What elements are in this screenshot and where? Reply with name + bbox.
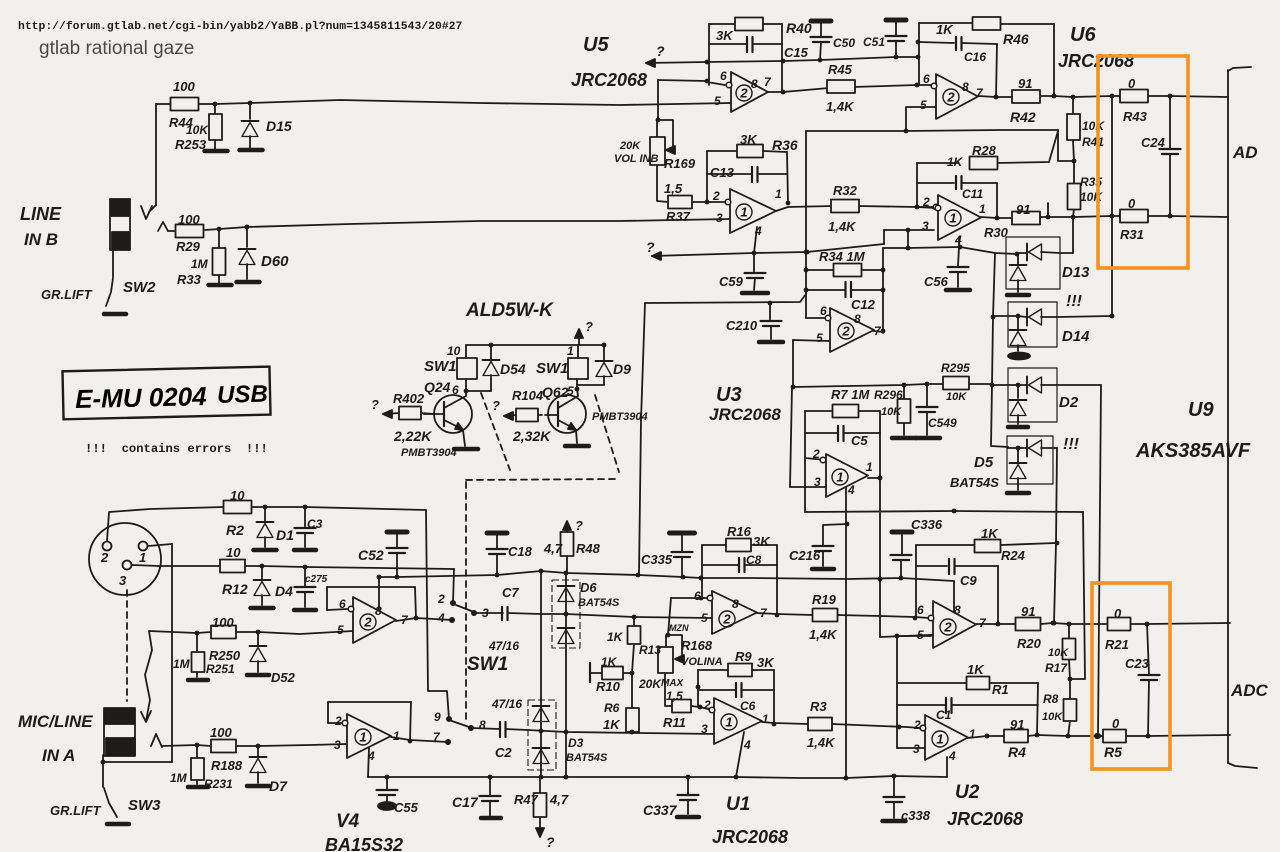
svg-text:10: 10 xyxy=(447,344,461,358)
svg-text:C18: C18 xyxy=(508,544,533,559)
svg-text:R34 1M: R34 1M xyxy=(819,249,866,264)
svg-text:MAX: MAX xyxy=(661,678,685,689)
svg-text:LINE: LINE xyxy=(20,204,62,224)
svg-text:c275: c275 xyxy=(305,574,328,585)
svg-text:4,7: 4,7 xyxy=(543,541,563,556)
svg-text:U9: U9 xyxy=(1188,399,1214,421)
svg-text:47/16: 47/16 xyxy=(491,697,522,711)
svg-text:1: 1 xyxy=(775,187,782,201)
svg-text:R7 1M: R7 1M xyxy=(831,387,870,402)
svg-text:!!! contains errors !!!: !!! contains errors !!! xyxy=(85,442,268,456)
svg-text:Q24: Q24 xyxy=(424,379,451,395)
svg-text:1,4K: 1,4K xyxy=(809,627,838,642)
svg-text:2: 2 xyxy=(922,195,930,209)
svg-text:GR.LIFT: GR.LIFT xyxy=(41,287,93,302)
svg-text:2: 2 xyxy=(913,718,921,732)
svg-text:D54: D54 xyxy=(500,361,526,377)
svg-text:C9: C9 xyxy=(960,573,977,588)
svg-text:R47: R47 xyxy=(514,792,539,807)
svg-text:R1: R1 xyxy=(992,682,1009,697)
svg-text:D5: D5 xyxy=(974,454,994,471)
svg-text:V4: V4 xyxy=(336,811,360,832)
svg-text:1: 1 xyxy=(936,731,943,746)
svg-text:SW2: SW2 xyxy=(123,279,156,296)
svg-text:R36: R36 xyxy=(772,137,798,153)
svg-text:ADC: ADC xyxy=(1230,681,1269,700)
svg-text:R17: R17 xyxy=(1045,661,1068,675)
svg-text:2: 2 xyxy=(334,714,342,728)
svg-text:1,4K: 1,4K xyxy=(826,99,855,114)
svg-text:8: 8 xyxy=(479,718,486,732)
svg-text:C7: C7 xyxy=(502,585,519,600)
svg-text:2: 2 xyxy=(712,189,720,203)
svg-text:6: 6 xyxy=(339,597,346,611)
svg-text:6: 6 xyxy=(923,72,930,86)
svg-text:2: 2 xyxy=(812,447,820,461)
svg-text:R40: R40 xyxy=(786,20,812,36)
svg-text:D2: D2 xyxy=(1059,394,1079,411)
svg-text:R32: R32 xyxy=(833,183,858,198)
svg-text:4: 4 xyxy=(948,749,956,763)
svg-text:3: 3 xyxy=(814,475,821,489)
svg-text:R45: R45 xyxy=(828,62,853,77)
svg-text:1: 1 xyxy=(979,202,986,216)
svg-text:R37: R37 xyxy=(666,209,691,224)
svg-text:10K: 10K xyxy=(1082,119,1105,133)
svg-text:2: 2 xyxy=(100,550,109,565)
svg-text:D4: D4 xyxy=(275,583,293,599)
svg-text:AD: AD xyxy=(1232,143,1258,162)
svg-text:D9: D9 xyxy=(613,361,631,377)
svg-text:100: 100 xyxy=(212,615,234,630)
svg-text:R16: R16 xyxy=(727,524,752,539)
svg-text:1: 1 xyxy=(359,729,366,744)
svg-text:8: 8 xyxy=(954,603,961,617)
svg-text:3K: 3K xyxy=(740,132,758,147)
svg-text:BAT54S: BAT54S xyxy=(566,752,608,764)
svg-text:C17: C17 xyxy=(452,794,479,810)
svg-text:U5: U5 xyxy=(583,34,609,56)
svg-text:R4: R4 xyxy=(1008,744,1026,760)
svg-text:3K: 3K xyxy=(716,28,734,43)
svg-text:91: 91 xyxy=(1021,604,1035,619)
svg-text:4: 4 xyxy=(367,749,375,763)
svg-text:R31: R31 xyxy=(1120,227,1144,242)
svg-text:20K: 20K xyxy=(619,140,641,152)
svg-text:R402: R402 xyxy=(393,391,425,406)
svg-text:SW3: SW3 xyxy=(128,797,161,814)
svg-text:IN B: IN B xyxy=(24,230,58,249)
svg-text:10K: 10K xyxy=(1048,647,1069,659)
svg-text:3: 3 xyxy=(119,573,127,588)
svg-text:1K: 1K xyxy=(607,630,624,644)
svg-text:3: 3 xyxy=(913,742,920,756)
svg-text:2: 2 xyxy=(437,592,445,606)
svg-text:6: 6 xyxy=(452,383,459,397)
svg-text:5: 5 xyxy=(714,94,721,108)
svg-text:http://forum.gtlab.net/cgi-bin: http://forum.gtlab.net/cgi-bin/yabb2/YaB… xyxy=(18,21,462,33)
svg-text:SW1: SW1 xyxy=(536,360,569,377)
svg-text:R8: R8 xyxy=(1043,692,1059,706)
svg-text:C337: C337 xyxy=(643,802,678,818)
svg-text:4: 4 xyxy=(954,233,962,247)
svg-text:JRC2068: JRC2068 xyxy=(571,70,647,90)
svg-text:C50: C50 xyxy=(833,36,855,50)
svg-text:C24: C24 xyxy=(1141,135,1166,150)
svg-text:C23: C23 xyxy=(1125,656,1150,671)
svg-text:4: 4 xyxy=(743,738,751,752)
svg-text:?: ? xyxy=(656,43,665,59)
svg-text:1: 1 xyxy=(866,460,873,474)
svg-text:U1: U1 xyxy=(726,794,750,815)
svg-text:3K: 3K xyxy=(753,534,771,549)
svg-text:1: 1 xyxy=(949,210,956,225)
svg-text:SW1: SW1 xyxy=(467,654,508,675)
svg-text:MIC/LINE: MIC/LINE xyxy=(18,712,93,731)
svg-text:1,4K: 1,4K xyxy=(828,219,857,234)
svg-text:R104: R104 xyxy=(512,388,544,403)
svg-text:8: 8 xyxy=(732,597,739,611)
svg-text:1,5: 1,5 xyxy=(666,689,683,703)
svg-text:100: 100 xyxy=(178,212,200,227)
svg-text:1K: 1K xyxy=(947,155,964,169)
svg-text:8: 8 xyxy=(751,77,758,91)
svg-text:R24: R24 xyxy=(1001,548,1026,563)
svg-text:1K: 1K xyxy=(936,22,954,37)
svg-text:3: 3 xyxy=(482,606,489,620)
svg-text:5: 5 xyxy=(567,384,574,398)
svg-text:R33: R33 xyxy=(177,272,202,287)
svg-text:20K: 20K xyxy=(638,677,662,691)
svg-text:C59: C59 xyxy=(719,274,744,289)
svg-text:4: 4 xyxy=(847,483,855,497)
svg-text:D13: D13 xyxy=(1062,264,1090,281)
svg-text:C12: C12 xyxy=(851,297,876,312)
svg-text:10: 10 xyxy=(230,488,245,503)
svg-text:R28: R28 xyxy=(972,143,997,158)
svg-text:1: 1 xyxy=(393,729,400,743)
svg-text:D3: D3 xyxy=(568,736,584,750)
svg-text:!!!: !!! xyxy=(1066,293,1083,310)
svg-text:C51: C51 xyxy=(863,35,885,49)
svg-text:C3: C3 xyxy=(307,517,323,531)
svg-text:R3: R3 xyxy=(810,699,827,714)
svg-text:0: 0 xyxy=(1114,606,1122,621)
svg-text:1K: 1K xyxy=(981,526,999,541)
svg-text:ALD5W-K: ALD5W-K xyxy=(465,300,554,321)
svg-text:C5: C5 xyxy=(851,433,868,448)
svg-text:R46: R46 xyxy=(1003,31,1029,47)
svg-text:R19: R19 xyxy=(812,592,837,607)
svg-text:2: 2 xyxy=(703,698,711,712)
svg-text:4: 4 xyxy=(754,224,762,238)
svg-text:R250: R250 xyxy=(209,648,241,663)
svg-text:1K: 1K xyxy=(601,655,618,669)
svg-text:R231: R231 xyxy=(204,777,233,791)
svg-text:R168: R168 xyxy=(681,638,713,653)
svg-text:1: 1 xyxy=(969,727,976,741)
svg-text:gtlab rational gaze: gtlab rational gaze xyxy=(39,38,194,59)
svg-text:R6: R6 xyxy=(604,701,620,715)
svg-text:10K: 10K xyxy=(1042,711,1063,723)
svg-text:BAT54S: BAT54S xyxy=(950,475,999,490)
svg-text:R253: R253 xyxy=(175,137,207,152)
svg-text:6: 6 xyxy=(720,69,727,83)
svg-text:9: 9 xyxy=(434,710,441,724)
svg-text:47/16: 47/16 xyxy=(488,639,519,653)
svg-text:JRC2068: JRC2068 xyxy=(709,405,781,424)
svg-text:BA15S32: BA15S32 xyxy=(325,835,403,852)
svg-text:C335: C335 xyxy=(641,552,673,567)
svg-text:R251: R251 xyxy=(206,662,235,676)
svg-text:6: 6 xyxy=(694,589,701,603)
svg-text:1: 1 xyxy=(740,204,747,219)
svg-text:10: 10 xyxy=(226,545,241,560)
svg-text:VOL INB: VOL INB xyxy=(614,153,658,165)
svg-text:10K: 10K xyxy=(1080,190,1103,204)
svg-text:C56: C56 xyxy=(924,274,949,289)
svg-text:3: 3 xyxy=(701,722,708,736)
svg-text:1: 1 xyxy=(567,344,574,358)
svg-text:Q62: Q62 xyxy=(542,384,569,400)
svg-text:100: 100 xyxy=(173,79,195,94)
svg-text:3: 3 xyxy=(716,211,723,225)
svg-text:?: ? xyxy=(546,834,555,850)
svg-text:2: 2 xyxy=(946,89,955,104)
svg-text:1: 1 xyxy=(762,712,769,726)
svg-text:1K: 1K xyxy=(967,662,985,677)
svg-text:R29: R29 xyxy=(176,239,201,254)
svg-text:C16: C16 xyxy=(964,50,986,64)
svg-text:1,4K: 1,4K xyxy=(807,735,836,750)
svg-text:3K: 3K xyxy=(757,655,775,670)
svg-text:C216: C216 xyxy=(789,548,821,563)
svg-text:!!!: !!! xyxy=(1063,436,1080,453)
svg-text:1,5: 1,5 xyxy=(664,181,683,196)
svg-text:SW1: SW1 xyxy=(424,358,457,375)
svg-text:1M: 1M xyxy=(173,657,191,671)
svg-text:MZN: MZN xyxy=(669,623,689,633)
svg-text:C8: C8 xyxy=(746,553,762,567)
svg-text:PMBT3904: PMBT3904 xyxy=(401,447,457,459)
svg-text:10K: 10K xyxy=(186,123,209,137)
svg-text:10K: 10K xyxy=(881,406,902,418)
svg-text:3: 3 xyxy=(922,219,929,233)
svg-text:91: 91 xyxy=(1010,717,1024,732)
svg-text:2,22K: 2,22K xyxy=(393,428,432,444)
svg-text:91: 91 xyxy=(1016,202,1030,217)
svg-text:D15: D15 xyxy=(266,118,292,134)
svg-text:5: 5 xyxy=(920,98,927,112)
svg-text:E-MU 0204: E-MU 0204 xyxy=(75,381,208,414)
svg-text:D60: D60 xyxy=(261,253,289,270)
svg-text:1: 1 xyxy=(725,714,732,729)
svg-text:R41: R41 xyxy=(1082,135,1104,149)
svg-text:2: 2 xyxy=(722,611,731,626)
svg-text:4,7: 4,7 xyxy=(549,792,569,807)
svg-text:D14: D14 xyxy=(1062,328,1090,345)
svg-text:GR.LIFT: GR.LIFT xyxy=(50,803,102,818)
svg-text:c338: c338 xyxy=(901,808,931,823)
svg-text:R12: R12 xyxy=(222,581,248,597)
svg-text:JRC2068: JRC2068 xyxy=(712,827,788,847)
svg-text:C2: C2 xyxy=(495,745,512,760)
svg-text:C13: C13 xyxy=(710,165,735,180)
svg-text:2: 2 xyxy=(363,614,372,629)
svg-text:C11: C11 xyxy=(962,187,983,201)
svg-text:4: 4 xyxy=(437,611,445,625)
svg-text:C55: C55 xyxy=(394,800,419,815)
svg-text:3: 3 xyxy=(334,738,341,752)
svg-text:?: ? xyxy=(371,397,379,412)
svg-text:U2: U2 xyxy=(955,782,980,803)
svg-text:R9: R9 xyxy=(735,649,752,664)
svg-text:D52: D52 xyxy=(271,670,296,685)
svg-text:5: 5 xyxy=(337,623,344,637)
svg-text:10K: 10K xyxy=(946,391,967,403)
svg-text:C1: C1 xyxy=(936,708,952,722)
svg-text:BAT54S: BAT54S xyxy=(578,597,620,609)
svg-text:?: ? xyxy=(575,518,583,533)
svg-text:1M: 1M xyxy=(191,257,209,271)
svg-text:R30: R30 xyxy=(984,225,1009,240)
svg-text:6: 6 xyxy=(917,603,924,617)
svg-text:JRC2068: JRC2068 xyxy=(947,809,1023,829)
svg-text:1K: 1K xyxy=(603,717,621,732)
svg-text:R43: R43 xyxy=(1123,109,1148,124)
svg-text:C52: C52 xyxy=(358,547,384,563)
svg-text:R296: R296 xyxy=(874,388,903,402)
svg-text:2,32K: 2,32K xyxy=(512,428,551,444)
svg-text:91: 91 xyxy=(1018,76,1032,91)
svg-text:R48: R48 xyxy=(576,541,601,556)
svg-text:0: 0 xyxy=(1128,76,1136,91)
svg-text:JRC2068: JRC2068 xyxy=(1058,51,1134,71)
svg-text:R11: R11 xyxy=(663,715,686,730)
svg-text:USB: USB xyxy=(217,381,268,409)
svg-text:0: 0 xyxy=(1128,196,1136,211)
svg-text:8: 8 xyxy=(854,312,861,326)
svg-text:U3: U3 xyxy=(716,384,742,406)
svg-text:R42: R42 xyxy=(1010,109,1036,125)
svg-text:2: 2 xyxy=(943,619,952,634)
svg-text:U6: U6 xyxy=(1070,24,1096,46)
svg-text:5: 5 xyxy=(816,331,823,345)
svg-text:R5: R5 xyxy=(1104,744,1122,760)
svg-text:D6: D6 xyxy=(580,580,597,595)
svg-text:R13: R13 xyxy=(639,643,661,657)
svg-text:100: 100 xyxy=(210,725,232,740)
svg-text:R188: R188 xyxy=(211,758,243,773)
svg-text:PMBT3904: PMBT3904 xyxy=(592,411,648,423)
svg-text:IN A: IN A xyxy=(42,746,75,765)
svg-text:R169: R169 xyxy=(664,156,696,171)
svg-text:8: 8 xyxy=(962,80,969,94)
svg-text:5: 5 xyxy=(917,628,924,642)
svg-text:VOLINA: VOLINA xyxy=(681,656,723,668)
svg-text:D7: D7 xyxy=(269,778,288,794)
svg-text:2: 2 xyxy=(841,323,850,338)
svg-text:?: ? xyxy=(585,319,593,334)
svg-text:R295: R295 xyxy=(941,361,970,375)
svg-text:2: 2 xyxy=(739,85,748,100)
svg-text:R10: R10 xyxy=(596,679,621,694)
svg-text:R20: R20 xyxy=(1017,636,1042,651)
svg-text:R21: R21 xyxy=(1105,637,1129,652)
svg-text:?: ? xyxy=(646,239,655,255)
svg-text:AKS385AVF: AKS385AVF xyxy=(1135,440,1251,462)
svg-text:C6: C6 xyxy=(740,699,756,713)
svg-text:6: 6 xyxy=(820,304,827,318)
svg-text:1: 1 xyxy=(139,550,146,565)
svg-text:1: 1 xyxy=(836,469,843,484)
svg-text:5: 5 xyxy=(701,611,708,625)
svg-text:C210: C210 xyxy=(726,318,758,333)
svg-text:8: 8 xyxy=(375,604,382,618)
svg-text:C336: C336 xyxy=(911,517,943,532)
svg-text:D1: D1 xyxy=(276,527,294,543)
svg-text:?: ? xyxy=(492,398,500,413)
svg-text:1M: 1M xyxy=(170,771,188,785)
svg-text:C15: C15 xyxy=(784,45,809,60)
svg-text:R2: R2 xyxy=(226,522,244,538)
svg-text:0: 0 xyxy=(1112,716,1120,731)
svg-text:C549: C549 xyxy=(928,416,957,430)
